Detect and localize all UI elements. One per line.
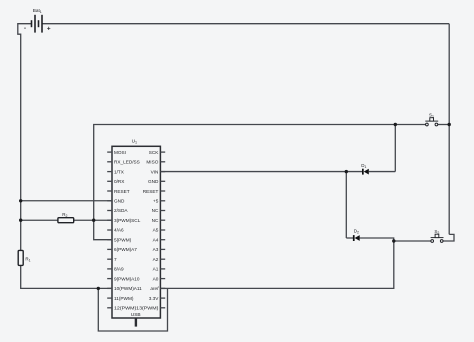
svg-text:+5: +5 bbox=[153, 199, 159, 204]
pin stub right row 10 (A4) bbox=[160, 239, 165, 241]
pin stub left row 11 (6(PWM)A7) bbox=[107, 248, 112, 250]
pushbutton S2 bbox=[431, 234, 444, 242]
pin stub right row 8 (NC) bbox=[160, 219, 165, 221]
svg-text:GND: GND bbox=[114, 199, 125, 204]
pin stub left row 7 (2/SDA) bbox=[107, 210, 112, 212]
pin stub right row 15 (aref) bbox=[160, 287, 165, 289]
junction battery-/R2 bbox=[19, 219, 22, 222]
wire VIN junction down to D2 bbox=[345, 172, 347, 238]
pin stub right row 9 (A5) bbox=[160, 229, 165, 231]
svg-text:+: + bbox=[47, 25, 51, 32]
svg-text:VIN: VIN bbox=[151, 169, 159, 174]
svg-text:3.3V: 3.3V bbox=[149, 296, 160, 301]
pin stub right row 16 (3.3V) bbox=[160, 297, 165, 299]
svg-text:MISO: MISO bbox=[146, 160, 158, 165]
pin stub left row 6 (GND) bbox=[107, 200, 112, 202]
junction S1/right rail bbox=[448, 123, 451, 126]
pin stub right row 3 (VIN) bbox=[160, 171, 165, 173]
svg-text:4/A6: 4/A6 bbox=[114, 228, 124, 233]
wire aref pin bbox=[160, 287, 167, 289]
wire right rail vertical bbox=[448, 24, 450, 235]
pin stub right row 12 (A2) bbox=[160, 258, 165, 260]
svg-text:A4: A4 bbox=[153, 237, 159, 242]
pin stub left row 4 (0/RX) bbox=[107, 180, 112, 182]
wire S1 right to right rail bbox=[438, 124, 450, 126]
pushbutton S1 bbox=[425, 118, 438, 126]
wire D2 to S2 bbox=[360, 238, 431, 241]
svg-text:11(PWM): 11(PWM) bbox=[114, 296, 134, 301]
svg-text:A1: A1 bbox=[153, 267, 159, 272]
op-amp U1 microcontroller body bbox=[112, 146, 160, 318]
svg-text:RX_LED/SS: RX_LED/SS bbox=[114, 160, 140, 165]
pin stub right row 5 (RESET) bbox=[160, 190, 165, 192]
svg-text:A3: A3 bbox=[153, 247, 159, 252]
svg-text:8/A9: 8/A9 bbox=[114, 267, 124, 272]
resistor R2 bbox=[58, 218, 74, 223]
svg-text:10(PWM)A11: 10(PWM)A11 bbox=[114, 286, 142, 291]
svg-text:1/TX: 1/TX bbox=[114, 169, 125, 174]
svg-text:USB: USB bbox=[131, 312, 141, 318]
svg-text:NC: NC bbox=[152, 218, 159, 223]
svg-text:RESET: RESET bbox=[143, 189, 159, 194]
junction battery-/GND bbox=[19, 199, 22, 202]
svg-text:-: - bbox=[24, 26, 26, 32]
svg-text:GND: GND bbox=[148, 179, 159, 184]
svg-text:5(PWM): 5(PWM) bbox=[114, 237, 132, 242]
wire battery+ top rail bbox=[42, 23, 449, 25]
wire battery- left down to R1 bbox=[18, 24, 32, 251]
wire pin 5(PWM) up and over to S1 bbox=[94, 125, 426, 240]
svg-text:A5: A5 bbox=[153, 228, 159, 233]
junction D2/S2/bottom net bbox=[392, 239, 395, 242]
wire into D2 bbox=[346, 237, 353, 239]
wire bottom loop to pin10 node bbox=[98, 288, 167, 331]
wire R1 bottom to pin 10(PWM)A11 bbox=[21, 265, 112, 288]
battery Bat1 bbox=[32, 15, 43, 33]
pin stub right row 17 (13(PWM)) bbox=[160, 307, 165, 309]
pin stub right row 7 (NC) bbox=[160, 210, 165, 212]
svg-text:9(PWM)A10: 9(PWM)A10 bbox=[114, 276, 140, 281]
pin stub left row 15 (10(PWM)A11) bbox=[107, 287, 112, 289]
pin stub left row 5 (RESET) bbox=[107, 190, 112, 192]
junction R2/pin3/pin5 net bbox=[92, 219, 95, 222]
svg-text:3(PWM)SCL: 3(PWM)SCL bbox=[114, 218, 141, 223]
pin stub right row 2 (MISO) bbox=[160, 161, 165, 163]
svg-text:0/RX: 0/RX bbox=[114, 179, 125, 184]
pin stub left row 8 (3(PWM)SCL) bbox=[107, 219, 112, 221]
pin stub left row 2 (RX_LED/SS) bbox=[107, 161, 112, 163]
junction VIN/D1/D2 bbox=[345, 170, 348, 173]
pin stub right row 6 (+5) bbox=[160, 200, 165, 202]
svg-text:RESET: RESET bbox=[114, 189, 130, 194]
svg-text:12(PWM): 12(PWM) bbox=[114, 306, 137, 311]
resistor R1 bbox=[18, 250, 23, 265]
svg-text:MOSI: MOSI bbox=[114, 150, 126, 155]
svg-text:A0: A0 bbox=[153, 276, 159, 281]
pin stub left row 17 (12(PWM)) bbox=[107, 307, 112, 309]
wire D1 up to S1 net bbox=[394, 125, 396, 172]
pin stub left row 10 (5(PWM)) bbox=[107, 239, 112, 241]
pin stub left row 16 (11(PWM)) bbox=[107, 297, 112, 299]
svg-text:6(PWM)A7: 6(PWM)A7 bbox=[114, 247, 137, 252]
pin stub right row 11 (A3) bbox=[160, 248, 165, 250]
pin stub right row 4 (GND) bbox=[160, 180, 165, 182]
junction D1/S1 wire bbox=[394, 123, 397, 126]
diode D1 bbox=[362, 169, 369, 175]
wire GND pin6 to left rail bbox=[21, 200, 112, 202]
pin stub left row 13 (8/A9) bbox=[107, 268, 112, 270]
wire S2 net down to aref row bbox=[168, 241, 394, 288]
pin stub right row 1 (SCK) bbox=[160, 151, 165, 153]
wire D1 to vertical bbox=[369, 171, 396, 173]
USB port stub bbox=[135, 318, 137, 327]
diode D2 bbox=[353, 235, 360, 241]
svg-text:SCK: SCK bbox=[149, 150, 160, 155]
pin stub left row 14 (9(PWM)A10) bbox=[107, 278, 112, 280]
svg-text:A2: A2 bbox=[153, 257, 159, 262]
pin stub left row 3 (1/TX) bbox=[107, 171, 112, 173]
pin stub right row 14 (A0) bbox=[160, 278, 165, 280]
pin stub left row 9 (4/A6) bbox=[107, 229, 112, 231]
pin stub right row 13 (A1) bbox=[160, 268, 165, 270]
wire R2 left bbox=[21, 219, 58, 221]
wire VIN pin to D1 bbox=[160, 171, 362, 173]
svg-text:13(PWM): 13(PWM) bbox=[136, 306, 159, 311]
wire R2 right to pin 3(PWM)SCL bbox=[74, 219, 112, 221]
svg-text:2/SDA: 2/SDA bbox=[114, 208, 128, 213]
svg-text:aref: aref bbox=[150, 286, 159, 291]
pin stub left row 1 (MOSI) bbox=[107, 151, 112, 153]
svg-text:7: 7 bbox=[114, 257, 117, 262]
pin stub left row 12 (7) bbox=[107, 258, 112, 260]
junction R1/pin10/bottom loop bbox=[97, 287, 100, 290]
wire jog right rail to S2 bbox=[443, 234, 454, 241]
svg-text:NC: NC bbox=[152, 208, 159, 213]
